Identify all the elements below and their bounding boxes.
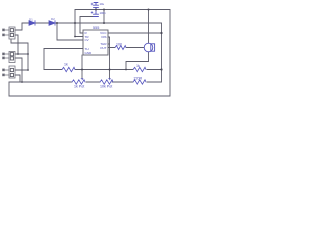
svg-text:OUT: OUT <box>100 46 107 50</box>
connector J3 <box>3 66 15 78</box>
wire pin4 stub <box>80 32 83 34</box>
wire conn1 pin1 <box>15 23 22 30</box>
wire DIS THR bracket <box>108 37 110 44</box>
wire resistor row left <box>44 69 62 71</box>
diode D2 <box>49 21 55 26</box>
svg-text:10u: 10u <box>100 2 105 6</box>
wire pin8 stub <box>75 36 83 38</box>
wire conn3 pin2 <box>15 75 20 82</box>
wire vertical x81 <box>79 17 81 34</box>
wire conn3 pin1 <box>15 69 28 71</box>
svg-text:555: 555 <box>93 26 99 30</box>
wire speaker bottom loop <box>126 52 149 70</box>
wire speaker top lead <box>148 10 150 44</box>
wire vertical x75 <box>74 10 76 37</box>
wire pot row right <box>112 81 133 83</box>
svg-text:D2: D2 <box>51 17 55 21</box>
potentiometer P1 wiper <box>81 79 83 81</box>
wire diode row rail C <box>22 22 162 24</box>
capacitor C2 <box>91 10 99 17</box>
wire pot row mid <box>86 81 100 83</box>
svg-text:100n: 100n <box>100 11 107 15</box>
potentiometer P2 wiper <box>108 79 110 81</box>
wire conn2 pin1 <box>15 53 28 55</box>
svg-text:D1: D1 <box>29 18 33 22</box>
potentiometer P2 <box>100 80 113 84</box>
capacitor C1 <box>91 3 99 10</box>
wire R bottom right <box>147 23 162 82</box>
resistor R top right <box>133 67 146 71</box>
wire vertical x109 <box>109 37 111 79</box>
junction dots <box>17 9 162 83</box>
svg-text:220R: 220R <box>134 77 143 81</box>
wire resistor row mid <box>75 69 133 71</box>
text labels <box>29 2 142 89</box>
wire rail B <box>80 16 96 18</box>
connector J1 <box>3 27 15 39</box>
resistor R1 <box>62 67 75 71</box>
wire resistor row right <box>147 69 162 71</box>
svg-text:1k: 1k <box>136 64 140 68</box>
svg-text:GND: GND <box>85 51 93 55</box>
wire CV pin <box>57 23 83 40</box>
wire conn1 bottom loop <box>11 39 28 70</box>
wire IC gnd pin down <box>81 55 83 79</box>
svg-text:1k Pot: 1k Pot <box>74 85 84 89</box>
wire TRIG pin <box>44 48 83 50</box>
wire conn2 pin2 <box>15 58 22 82</box>
speaker LS1 <box>144 43 154 52</box>
svg-text:10k Pot: 10k Pot <box>100 85 112 89</box>
wire pot row rail <box>9 81 72 83</box>
wire ground loop left <box>9 10 170 97</box>
resistor R100 <box>115 46 126 50</box>
svg-text:100: 100 <box>116 43 122 47</box>
wire VCC rail top <box>75 9 170 11</box>
wire cap bypass x104 <box>103 10 105 24</box>
wire OUT pin <box>108 47 115 49</box>
connector J2 <box>3 52 15 63</box>
svg-text:1k: 1k <box>64 63 68 67</box>
wire conn1 pin2 <box>15 35 18 54</box>
IC U1 555 body <box>83 30 108 55</box>
potentiometer P1 <box>72 80 85 84</box>
diode D1 <box>29 21 35 26</box>
wire to speaker <box>126 47 144 49</box>
wire vertical x44 <box>43 49 45 70</box>
resistor R bottom right <box>133 80 146 84</box>
svg-text:CV: CV <box>85 38 89 42</box>
svg-text:DIS: DIS <box>101 35 106 39</box>
wire VCC pin right <box>108 32 162 34</box>
